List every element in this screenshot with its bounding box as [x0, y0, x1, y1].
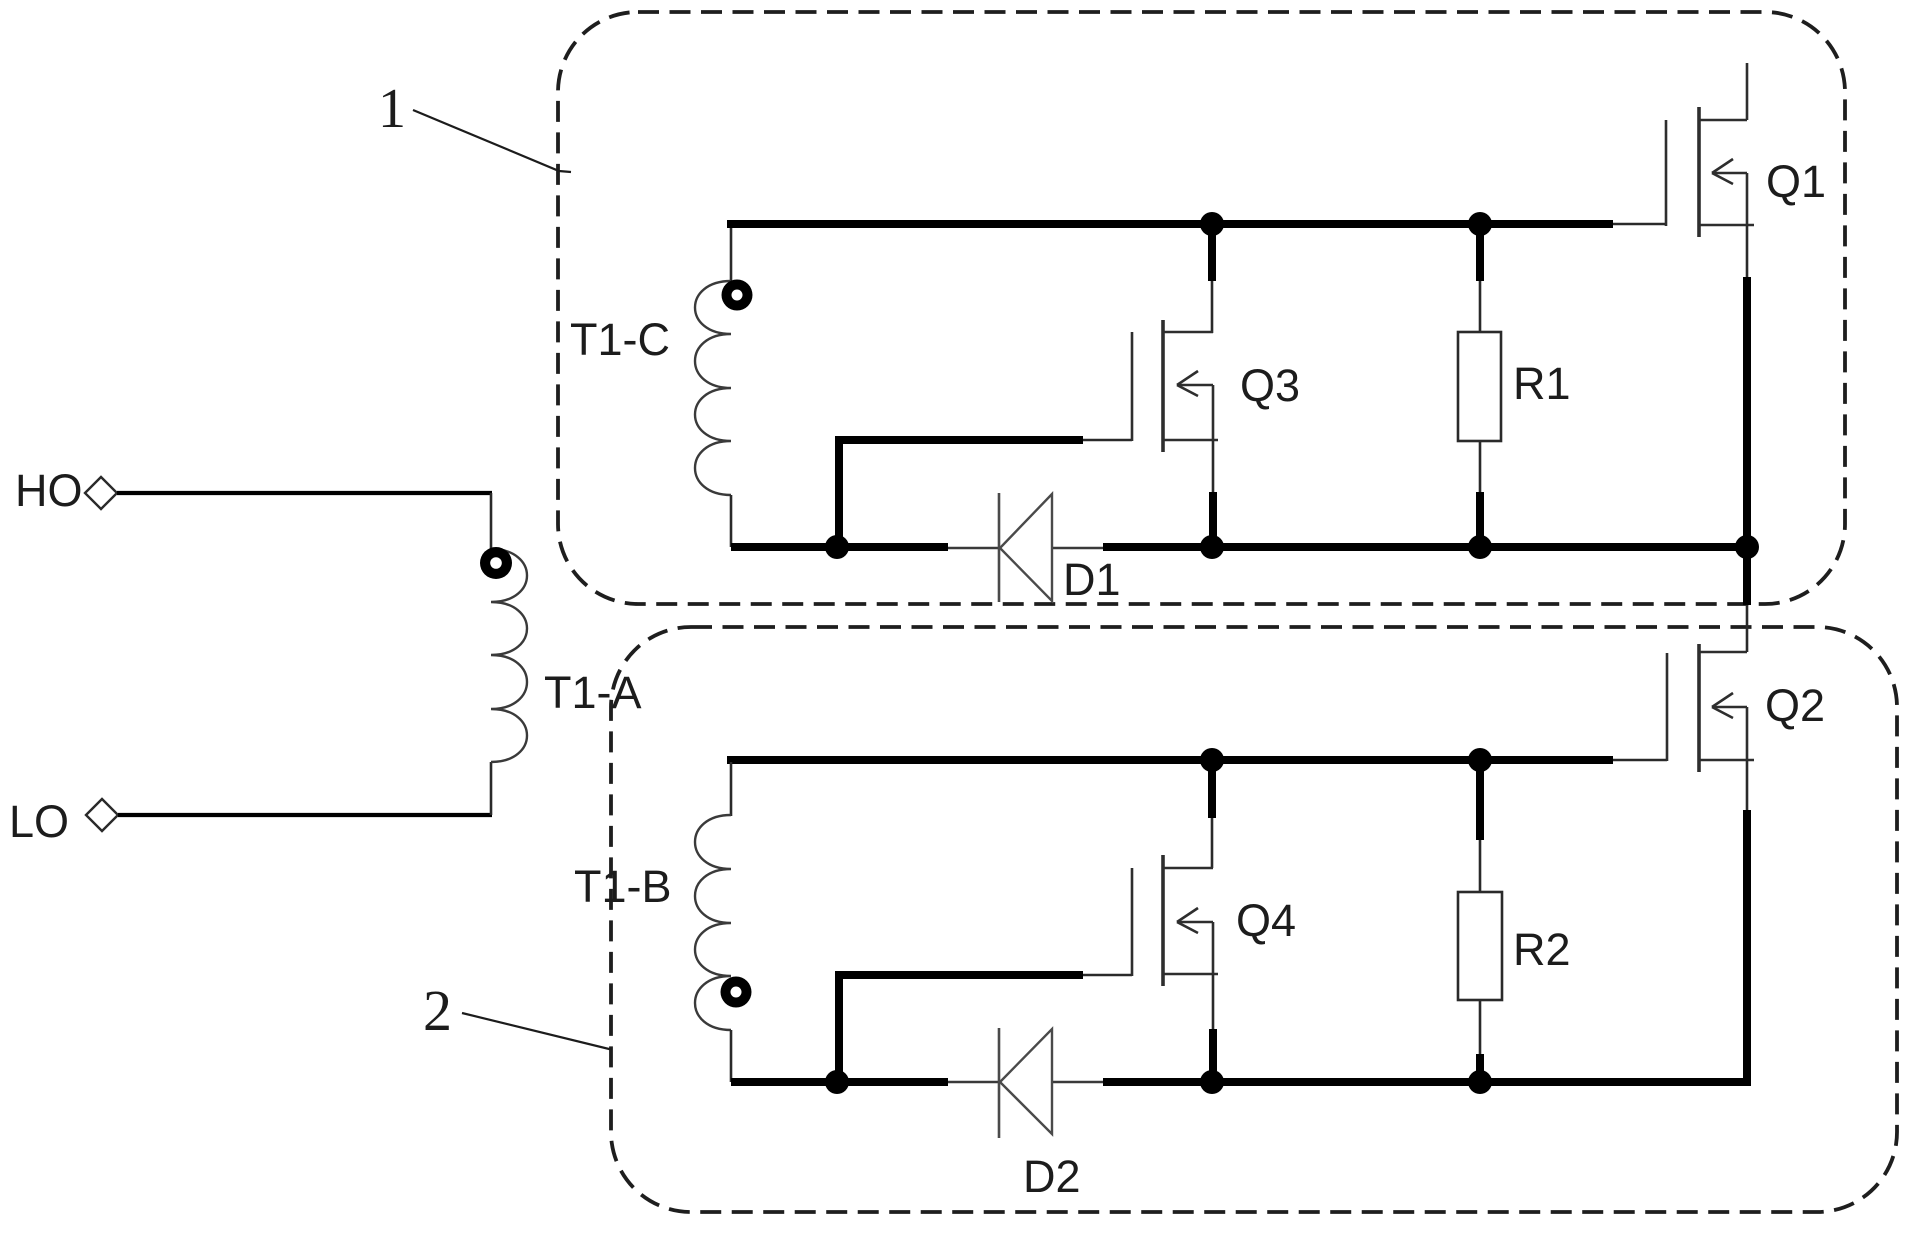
wire Q4 source lead	[1212, 974, 1215, 1082]
wire bottom rail of module 2	[731, 1078, 1747, 1086]
transformer secondary winding T1-C	[695, 226, 731, 547]
wire Q2 drain lead	[1746, 605, 1749, 652]
svg-text:2: 2	[423, 978, 452, 1043]
node junction Q4 source rail	[1200, 1070, 1224, 1094]
node junction R2 top rail	[1468, 748, 1492, 772]
wire LO to T1-A	[118, 762, 492, 815]
svg-text:T1-B: T1-B	[574, 861, 672, 912]
transformer primary winding T1-A	[491, 549, 527, 762]
svg-text:T1-A: T1-A	[544, 667, 642, 718]
terminal LO	[9, 796, 118, 847]
svg-text:Q4: Q4	[1236, 895, 1296, 946]
leader line from label 1	[413, 110, 571, 172]
transistor Q3	[1132, 320, 1218, 452]
node junction T1-C gate corner	[825, 535, 849, 559]
wire gate line of Q4	[835, 971, 1132, 1082]
wire HO to T1-A	[117, 493, 492, 551]
wire Q2 source lead down right side	[1746, 760, 1749, 1086]
svg-text:HO: HO	[15, 465, 83, 516]
wire R1 bottom lead	[1479, 441, 1482, 547]
diode D1	[999, 493, 1052, 602]
transistor Q1	[1666, 63, 1754, 237]
node junction Q4 top rail	[1200, 748, 1224, 772]
wire R2 bottom lead	[1479, 1000, 1482, 1082]
transistor Q2	[1667, 644, 1754, 772]
svg-text:1: 1	[378, 78, 406, 140]
resistor R2	[1458, 892, 1502, 1000]
node junction Q1 source rail	[1735, 535, 1759, 559]
svg-text:R1: R1	[1513, 358, 1571, 409]
transistor Q4	[1132, 855, 1218, 986]
node junction R1 top rail	[1468, 212, 1492, 236]
node junction Q3 top rail	[1200, 212, 1224, 236]
wire R2 top lead	[1476, 760, 1484, 892]
svg-text:Q2: Q2	[1765, 680, 1825, 731]
svg-text:Q1: Q1	[1766, 156, 1826, 207]
wire R1 top lead	[1476, 224, 1484, 333]
node junction T1-B gate corner	[825, 1070, 849, 1094]
node junction R1 bottom rail	[1468, 535, 1492, 559]
module 2 dashed box	[611, 627, 1897, 1212]
wire top rail of module 2	[727, 756, 1667, 764]
phase dot of T1-C	[722, 280, 753, 311]
svg-text:D2: D2	[1023, 1151, 1081, 1202]
leader line from label 2	[462, 1013, 612, 1049]
transformer secondary winding T1-B	[695, 762, 731, 1082]
svg-text:Q3: Q3	[1240, 360, 1300, 411]
svg-text:R2: R2	[1513, 924, 1571, 975]
svg-text:LO: LO	[9, 796, 69, 847]
terminal HO	[15, 465, 117, 516]
wire Q4 drain lead	[1208, 760, 1216, 868]
svg-text:T1-C: T1-C	[570, 314, 670, 365]
wire Q3 drain lead	[1208, 224, 1216, 333]
wire bottom rail of module 1	[731, 547, 1747, 548]
wire top rail of module 1	[727, 220, 1666, 228]
svg-text:D1: D1	[1063, 554, 1121, 605]
phase dot of T1-B	[721, 977, 752, 1008]
diode D2	[999, 1028, 1052, 1138]
resistor R1	[1458, 332, 1501, 441]
wire gate line of Q3	[835, 436, 1132, 547]
module 1 dashed box	[558, 12, 1845, 604]
wire Q3 source lead	[1212, 440, 1215, 547]
phase dot of T1-A	[480, 547, 512, 579]
node junction R2 bottom rail	[1468, 1070, 1492, 1094]
wire Q1 source lead down right side	[1746, 225, 1749, 605]
node junction Q3 source rail	[1200, 535, 1224, 559]
